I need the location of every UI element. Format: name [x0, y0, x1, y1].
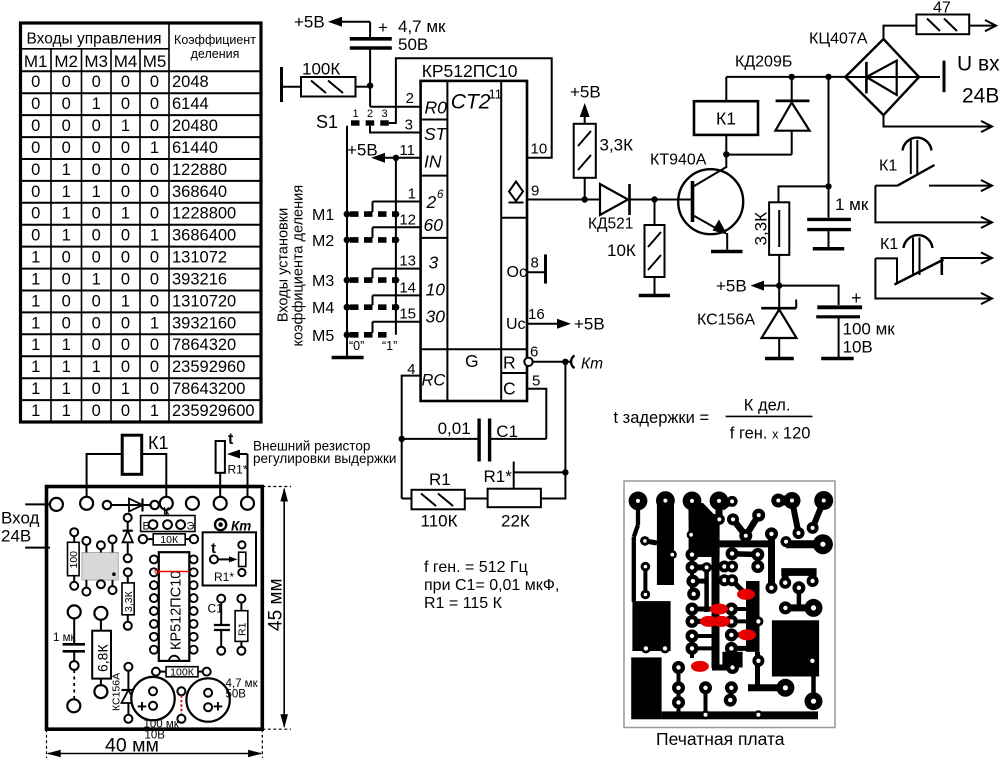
- svg-text:12: 12: [399, 211, 416, 228]
- svg-text:Входы установки: Входы установки: [276, 208, 292, 322]
- input terminals: [1, 504, 50, 547]
- node collector junction: [723, 151, 729, 157]
- svg-text:0: 0: [150, 336, 159, 354]
- svg-text:1: 1: [31, 380, 40, 398]
- svg-text:+5В: +5В: [716, 277, 747, 296]
- resistor 3,3K on board: [122, 568, 135, 630]
- svg-text:0,01: 0,01: [438, 419, 471, 438]
- svg-text:0: 0: [150, 161, 159, 179]
- formula t = Kdel/(fgen*120): [614, 397, 813, 443]
- diamond output symbol: [509, 182, 524, 203]
- svg-text:КР512ПС10: КР512ПС10: [169, 571, 185, 650]
- svg-text:1: 1: [150, 314, 159, 332]
- resistor R1 110K: [402, 470, 488, 531]
- svg-text:1: 1: [121, 380, 130, 398]
- svg-text:0: 0: [31, 205, 40, 223]
- svg-text:+5В: +5В: [294, 13, 325, 32]
- svg-text:2: 2: [406, 90, 414, 107]
- svg-text:1: 1: [62, 402, 71, 420]
- trimmer t R1* external: [216, 431, 248, 497]
- svg-text:4,7 мк: 4,7 мк: [398, 17, 446, 36]
- svg-text:0: 0: [121, 402, 130, 420]
- svg-text:0: 0: [92, 380, 101, 398]
- svg-text:1: 1: [121, 205, 130, 223]
- svg-text:R1: R1: [429, 470, 451, 489]
- svg-text:15: 15: [399, 306, 416, 323]
- DIP IC КР512ПС10 on board: [159, 552, 190, 661]
- resistor R1 on board: [235, 595, 248, 655]
- svg-text:деления: деления: [191, 47, 240, 61]
- svg-text:1: 1: [150, 227, 159, 245]
- svg-text:К1: К1: [880, 236, 898, 253]
- svg-text:1: 1: [92, 358, 101, 376]
- svg-text:0: 0: [150, 292, 159, 310]
- capacitor 100mk 10V: [779, 286, 895, 359]
- capacitor 1mk: [807, 183, 869, 249]
- ground at "0" bus: [332, 356, 364, 360]
- wire S1 pos2 to ST pin3: [370, 126, 421, 133]
- ground 10K: [639, 294, 670, 298]
- svg-text:при С1= 0,01 мкФ,: при С1= 0,01 мкФ,: [424, 577, 559, 594]
- svg-text:0: 0: [92, 227, 101, 245]
- svg-text:IN: IN: [424, 152, 442, 172]
- svg-text:t: t: [228, 431, 234, 448]
- svg-text:R1*: R1*: [214, 570, 234, 584]
- trimmer block t R1* on board: [203, 532, 256, 585]
- svg-text:1: 1: [121, 117, 130, 135]
- board outline: [47, 487, 263, 730]
- svg-text:368640: 368640: [172, 183, 227, 201]
- svg-text:1: 1: [92, 271, 101, 289]
- bridge minus output: [884, 115, 993, 132]
- svg-text:М4: М4: [114, 52, 138, 71]
- svg-text:1: 1: [92, 183, 101, 201]
- svg-text:0: 0: [31, 117, 40, 135]
- bridge КЦ407А: [809, 31, 919, 116]
- svg-text:0: 0: [121, 183, 130, 201]
- wire down to 1mk node: [828, 77, 830, 186]
- terminal Kt: [571, 356, 603, 373]
- svg-text:3932160: 3932160: [172, 314, 236, 332]
- svg-text:+5В: +5В: [574, 315, 605, 334]
- svg-text:1: 1: [408, 186, 416, 203]
- resistor 6,8K on board: [92, 607, 111, 698]
- svg-text:14: 14: [399, 279, 416, 296]
- svg-text:0: 0: [31, 183, 40, 201]
- pin 16 Uc +5V: [527, 306, 605, 334]
- svg-text:КТ940А: КТ940А: [650, 152, 707, 169]
- svg-text:М5: М5: [312, 328, 334, 345]
- svg-text:100 мк: 100 мк: [843, 320, 896, 339]
- svg-text:50В: 50В: [226, 689, 247, 701]
- svg-text:1: 1: [31, 292, 40, 310]
- dimension 40mm: [47, 729, 263, 758]
- svg-text:0: 0: [31, 95, 40, 113]
- svg-text:КД521: КД521: [588, 216, 633, 233]
- svg-text:КД209Б: КД209Б: [735, 54, 792, 71]
- svg-text:КС156А: КС156А: [697, 312, 755, 329]
- relay contact K1 upper (NO): [875, 138, 992, 228]
- svg-text:1: 1: [31, 249, 40, 267]
- svg-text:0: 0: [150, 117, 159, 135]
- svg-text:3: 3: [405, 117, 413, 134]
- svg-text:t задержки =: t задержки =: [614, 409, 710, 427]
- svg-text:1: 1: [62, 205, 71, 223]
- svg-text:10К: 10К: [607, 241, 636, 260]
- pin 8 Oc terminal: [527, 254, 546, 283]
- pin 5 C wire: [527, 373, 546, 439]
- svg-text:45 мм: 45 мм: [266, 578, 287, 631]
- svg-text:0: 0: [62, 249, 71, 267]
- label: f gen: [424, 559, 559, 612]
- svg-text:0: 0: [62, 117, 71, 135]
- PCB copper layout frame: [624, 481, 835, 749]
- svg-text:1: 1: [62, 380, 71, 398]
- svg-text:“1”: “1”: [382, 339, 397, 353]
- node +5V top-left: [294, 13, 370, 32]
- diode on top row: [111, 499, 150, 512]
- svg-text:0: 0: [121, 161, 130, 179]
- svg-text:0: 0: [92, 314, 101, 332]
- svg-text:К дел.: К дел.: [744, 397, 791, 415]
- switch contact М2: [312, 227, 421, 250]
- svg-text:23592960: 23592960: [172, 358, 245, 376]
- capacitor C1 on board: [208, 595, 230, 655]
- svg-text:0: 0: [150, 205, 159, 223]
- zener КС156А on board: [111, 663, 136, 723]
- diode КД209Б flyback: [735, 54, 810, 155]
- svg-text:20480: 20480: [172, 117, 218, 135]
- svg-text:1310720: 1310720: [172, 292, 236, 310]
- svg-text:М1: М1: [24, 52, 48, 71]
- svg-text:1: 1: [62, 358, 71, 376]
- svg-text:+: +: [137, 697, 147, 716]
- svg-text:0: 0: [150, 249, 159, 267]
- svg-text:К1: К1: [716, 109, 736, 129]
- svg-text:К1: К1: [148, 433, 169, 453]
- svg-text:0: 0: [62, 139, 71, 157]
- svg-text:М4: М4: [312, 300, 334, 317]
- svg-text:3: 3: [381, 108, 387, 120]
- svg-text:0: 0: [121, 271, 130, 289]
- svg-text:24В: 24В: [1, 527, 31, 546]
- switch S1: [316, 108, 389, 132]
- svg-text:3,3К: 3,3К: [752, 212, 771, 246]
- switch contact М5: [312, 322, 421, 345]
- svg-text:Коэффициент: Коэффициент: [174, 33, 256, 47]
- svg-text:М1: М1: [312, 207, 334, 224]
- svg-text:0: 0: [31, 139, 40, 157]
- svg-text:0: 0: [92, 73, 101, 91]
- svg-text:0: 0: [150, 380, 159, 398]
- svg-text:Кт: Кт: [581, 356, 603, 373]
- relay K1 on board: [87, 433, 169, 497]
- svg-text:S1: S1: [316, 112, 338, 132]
- svg-text:R1 = 115 К: R1 = 115 К: [424, 595, 503, 612]
- svg-text:0: 0: [31, 161, 40, 179]
- wire pin11 IN: [383, 157, 421, 159]
- svg-text:G: G: [465, 351, 479, 371]
- svg-text:131072: 131072: [172, 249, 227, 267]
- test point Kt: [215, 519, 251, 534]
- svg-text:100К: 100К: [302, 60, 340, 79]
- svg-text:+5В: +5В: [347, 141, 378, 160]
- svg-text:0: 0: [121, 139, 130, 157]
- svg-text:22К: 22К: [501, 512, 530, 531]
- svg-text:C: C: [503, 379, 516, 399]
- node +5V at IN: [347, 141, 385, 163]
- wire "1" bus: [395, 158, 397, 335]
- svg-text:13: 13: [399, 253, 416, 270]
- wire collector to flyback diode: [726, 154, 791, 156]
- svg-text:коэффициента деления: коэффициента деления: [291, 185, 307, 347]
- transistor pads B K E: [141, 506, 195, 533]
- capacitor C1 0,01: [402, 419, 547, 462]
- svg-text:0: 0: [150, 183, 159, 201]
- svg-text:Э: Э: [187, 521, 195, 533]
- svg-text:0: 0: [121, 227, 130, 245]
- wire loop pin10 to S1 pos3: [389, 58, 552, 158]
- svg-text:1: 1: [150, 402, 159, 420]
- wire to pin 2 R0: [370, 86, 421, 107]
- svg-text:Oc: Oc: [507, 264, 527, 281]
- svg-text:3,3К: 3,3К: [123, 590, 135, 612]
- svg-text:1: 1: [62, 183, 71, 201]
- svg-text:235929600: 235929600: [172, 402, 255, 420]
- svg-text:Вход: Вход: [1, 509, 40, 528]
- svg-text:ST: ST: [424, 124, 448, 144]
- svg-text:R1*: R1*: [484, 467, 513, 486]
- svg-text:0: 0: [150, 73, 159, 91]
- svg-text:регулировки выдержки: регулировки выдержки: [253, 451, 396, 466]
- node: pin4/C1 junction: [399, 436, 405, 442]
- resistor 10K on board: [139, 534, 198, 546]
- svg-text:3686400: 3686400: [172, 227, 236, 245]
- svg-text:6,8К: 6,8К: [95, 644, 111, 672]
- svg-text:1: 1: [31, 271, 40, 289]
- switch contact М3: [312, 269, 421, 291]
- svg-text:1 мк: 1 мк: [53, 632, 76, 644]
- svg-text:24В: 24В: [962, 85, 999, 108]
- svg-text:1: 1: [62, 161, 71, 179]
- resistor 100K: [282, 60, 371, 103]
- resistor R1* 22K: [484, 362, 569, 531]
- svg-text:3,3К: 3,3К: [600, 136, 634, 155]
- svg-text:C1: C1: [496, 422, 518, 441]
- svg-text:1 мк: 1 мк: [835, 195, 869, 214]
- node bridge branch: [825, 74, 831, 80]
- node: "1" bus junction: [393, 155, 399, 161]
- svg-text:М2: М2: [54, 52, 78, 71]
- svg-text:Б: Б: [143, 521, 150, 533]
- node: cap/resistor junction: [367, 82, 373, 88]
- svg-text:60: 60: [424, 215, 444, 235]
- svg-text:10: 10: [426, 280, 446, 300]
- svg-text:0: 0: [92, 336, 101, 354]
- svg-text:10К: 10К: [160, 534, 179, 546]
- svg-text:М3: М3: [312, 273, 334, 290]
- resistor 100 on board: [68, 528, 81, 590]
- electrolytic cap 4,7mk on board: [186, 678, 258, 722]
- svg-text:0: 0: [92, 117, 101, 135]
- svg-text:0: 0: [92, 249, 101, 267]
- red jumper bottom: [177, 687, 185, 723]
- svg-text:11: 11: [399, 142, 415, 159]
- resistor 3,3K (emitter side): [752, 186, 829, 288]
- terminal U vh 24V: [919, 53, 1000, 108]
- svg-text:КР512ПС10: КР512ПС10: [422, 61, 518, 81]
- svg-text:0: 0: [150, 95, 159, 113]
- svg-text:КС156А: КС156А: [111, 673, 123, 711]
- relay coil K1: [694, 77, 845, 154]
- svg-text:1: 1: [31, 402, 40, 420]
- svg-text:1: 1: [92, 95, 101, 113]
- relay contact K1 lower (NC): [875, 235, 992, 304]
- svg-text:Печатная плата: Печатная плата: [656, 729, 785, 749]
- svg-text:Uc: Uc: [506, 316, 526, 333]
- dimension 45mm: [262, 487, 291, 730]
- svg-text:11: 11: [489, 87, 503, 102]
- svg-text:0: 0: [92, 292, 101, 310]
- svg-text:0: 0: [121, 358, 130, 376]
- svg-text:0: 0: [150, 358, 159, 376]
- svg-text:2: 2: [426, 192, 437, 212]
- switch contact М4: [312, 295, 421, 317]
- svg-text:0: 0: [121, 249, 130, 267]
- zener КС156А: [697, 286, 797, 359]
- PCB copper traces: [634, 501, 824, 715]
- pin 6 R inverted output: [524, 344, 571, 366]
- svg-text:6144: 6144: [172, 95, 209, 113]
- svg-text:100К: 100К: [170, 666, 195, 678]
- svg-text:122880: 122880: [172, 161, 227, 179]
- IC U1 КР512ПС10 body: [421, 61, 527, 401]
- svg-text:100: 100: [68, 551, 80, 569]
- resistor 10K: [607, 200, 665, 295]
- svg-text:0: 0: [31, 227, 40, 245]
- svg-text:М5: М5: [143, 52, 167, 71]
- PCB red solder marks: [691, 589, 756, 672]
- svg-text:0: 0: [62, 95, 71, 113]
- svg-text:0: 0: [121, 314, 130, 332]
- svg-text:16: 16: [528, 306, 545, 323]
- diode КД521: [585, 184, 693, 233]
- svg-text:1: 1: [121, 292, 130, 310]
- svg-text:К1: К1: [879, 158, 897, 175]
- board pads top row: [50, 497, 254, 511]
- wire S1 pos1 to "0" bus: [346, 126, 348, 357]
- svg-text:RC: RC: [422, 372, 446, 390]
- svg-text:1: 1: [352, 108, 358, 120]
- resistor 3,3K pullup: [570, 83, 633, 203]
- node +5V output: [716, 277, 779, 296]
- svg-text:+: +: [213, 697, 223, 716]
- small diode on board: [123, 514, 133, 563]
- svg-text:КЦ407А: КЦ407А: [809, 31, 868, 48]
- svg-text:М3: М3: [84, 52, 108, 71]
- svg-text:1: 1: [62, 336, 71, 354]
- svg-text:6: 6: [437, 189, 444, 201]
- svg-text:1: 1: [31, 358, 40, 376]
- svg-text:1: 1: [31, 336, 40, 354]
- svg-text:0: 0: [92, 205, 101, 223]
- svg-text:1: 1: [31, 314, 40, 332]
- svg-text:0: 0: [150, 271, 159, 289]
- resistor 100К on board: [152, 666, 211, 678]
- svg-text:CT2: CT2: [451, 91, 491, 114]
- PCB pads: [629, 491, 834, 719]
- svg-text:110К: 110К: [421, 512, 458, 531]
- svg-text:10В: 10В: [843, 338, 873, 357]
- svg-text:R: R: [503, 353, 516, 373]
- svg-text:f ген. = 512 Гц: f ген. = 512 Гц: [424, 559, 528, 576]
- svg-text:R1: R1: [237, 622, 249, 636]
- svg-text:Кт: Кт: [231, 519, 251, 534]
- svg-text:Входы управления: Входы управления: [26, 31, 161, 48]
- optocoupler gray box: [82, 535, 118, 595]
- PCB copper filled regions: [631, 492, 819, 719]
- red jumper on DIP: [158, 571, 190, 573]
- label: внешний резистор регулировки выдержки: [253, 439, 396, 467]
- svg-text:М2: М2: [312, 233, 334, 250]
- svg-text:0: 0: [62, 314, 71, 332]
- svg-text:0: 0: [121, 336, 130, 354]
- svg-text:9: 9: [531, 183, 539, 200]
- svg-text:393216: 393216: [172, 271, 227, 289]
- svg-text:0: 0: [62, 292, 71, 310]
- svg-text:f ген. x 120: f ген. x 120: [730, 425, 811, 443]
- capacitor C 4,7mk 50V: [350, 17, 446, 86]
- svg-text:2: 2: [367, 108, 373, 120]
- transistor КТ940А: [650, 152, 743, 252]
- switch contact М1: [312, 202, 421, 225]
- svg-text:“0”: “0”: [349, 339, 364, 353]
- svg-text:+5В: +5В: [570, 83, 601, 102]
- svg-text:+: +: [378, 18, 388, 37]
- svg-text:8: 8: [531, 255, 539, 272]
- electrolytic cap 100mk on board: [131, 677, 179, 742]
- svg-text:1: 1: [150, 139, 159, 157]
- svg-text:40 мм: 40 мм: [105, 735, 159, 757]
- svg-text:50В: 50В: [398, 35, 428, 54]
- svg-text:0: 0: [92, 161, 101, 179]
- DIP IC pads: [150, 555, 198, 653]
- svg-text:3: 3: [429, 253, 439, 273]
- label: входы установки коэффициента деления (rotated): [276, 185, 307, 347]
- svg-text:10: 10: [531, 141, 548, 158]
- svg-text:U вх: U вх: [957, 53, 1000, 76]
- svg-text:7864320: 7864320: [172, 336, 236, 354]
- svg-text:1: 1: [62, 227, 71, 245]
- pin 4 RC wire: [402, 361, 421, 499]
- svg-text:0: 0: [62, 271, 71, 289]
- svg-text:0: 0: [92, 402, 101, 420]
- svg-text:30: 30: [426, 307, 446, 327]
- svg-text:+: +: [851, 288, 862, 308]
- svg-text:R1*: R1*: [228, 463, 248, 477]
- svg-text:0: 0: [31, 73, 40, 91]
- svg-text:78643200: 78643200: [172, 380, 245, 398]
- svg-text:0: 0: [121, 73, 130, 91]
- svg-text:1228800: 1228800: [172, 205, 236, 223]
- svg-text:R0: R0: [425, 98, 448, 118]
- svg-text:0: 0: [121, 95, 130, 113]
- resistor 47: [884, 0, 997, 39]
- pin 9 output wire: [527, 183, 585, 200]
- table: коэффициент деления truth table: [21, 23, 262, 422]
- svg-text:2048: 2048: [172, 73, 209, 91]
- svg-text:5: 5: [532, 373, 540, 390]
